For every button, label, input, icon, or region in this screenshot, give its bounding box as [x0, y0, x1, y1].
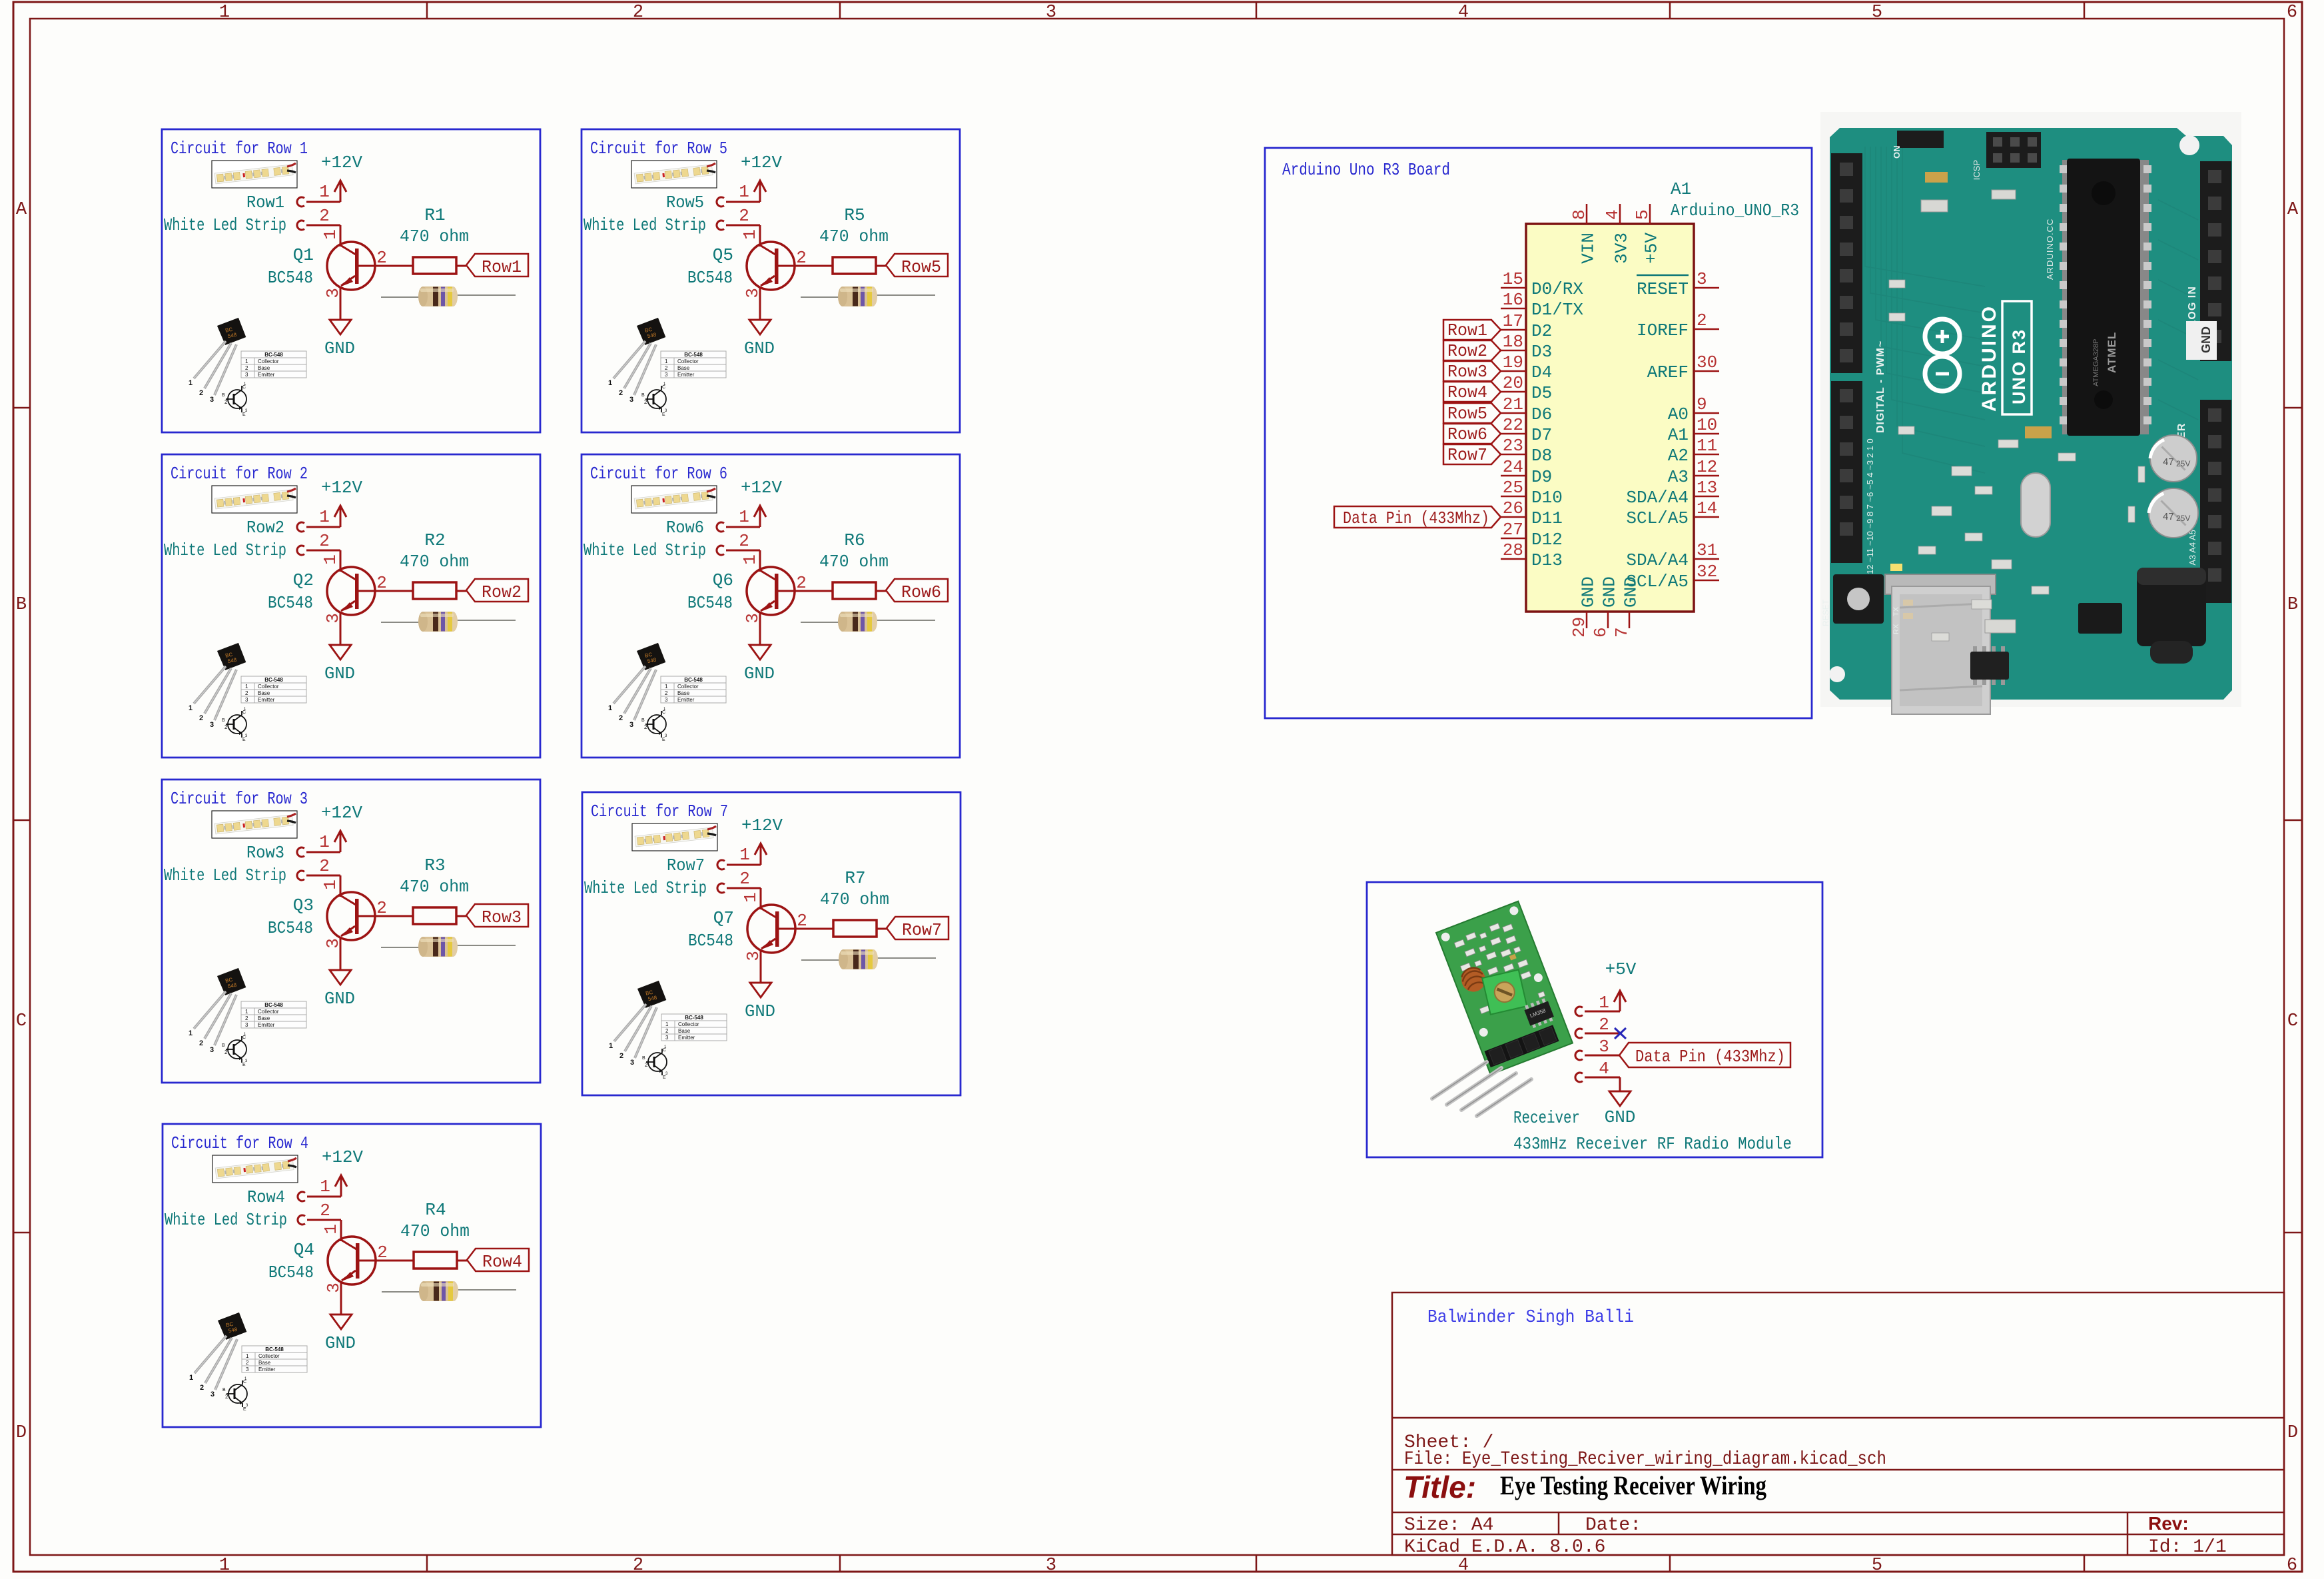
- svg-text:Collector: Collector: [258, 358, 279, 364]
- pin 5 (+5V): [1649, 204, 1651, 224]
- pin 4 (3V3): [1619, 204, 1621, 224]
- svg-text:Row5: Row5: [901, 257, 941, 277]
- svg-text:Q2: Q2: [293, 570, 314, 590]
- transistor Q5 BC548: [747, 242, 795, 290]
- svg-text:2: 2: [320, 1201, 330, 1221]
- svg-text:3: 3: [246, 1366, 249, 1372]
- pin 2 (IOREF): [1694, 328, 1719, 330]
- pin 15 (D0/RX): [1501, 287, 1526, 289]
- svg-text:Row7: Row7: [1447, 445, 1487, 465]
- svg-text:Base: Base: [258, 365, 270, 371]
- svg-text:2: 2: [245, 690, 248, 696]
- receiver pin 3: [1575, 1051, 1583, 1060]
- svg-text:BC-548: BC-548: [265, 1346, 284, 1352]
- svg-text:Collector: Collector: [678, 1021, 699, 1027]
- svg-text:2: 2: [199, 1039, 203, 1047]
- svg-text:9: 9: [1697, 394, 1707, 414]
- svg-text:24: 24: [1503, 457, 1523, 477]
- pin 23 (D8): [1501, 454, 1526, 456]
- photo: white LED strip: [632, 823, 717, 851]
- power symbol +12V: [755, 843, 767, 865]
- svg-text:BC-548: BC-548: [684, 352, 703, 358]
- ground symbol GND: [749, 645, 771, 660]
- svg-text:A: A: [2287, 200, 2299, 220]
- svg-text:+12V: +12V: [321, 803, 362, 823]
- svg-text:Base: Base: [677, 690, 690, 696]
- svg-text:Collector: Collector: [258, 684, 279, 690]
- svg-text:Collector: Collector: [677, 358, 699, 364]
- receiver pin 2 wire: [1585, 1033, 1620, 1035]
- wire pin1 to +12V: [726, 526, 760, 528]
- svg-text:GND: GND: [324, 664, 355, 684]
- wire resistor to net label: [876, 590, 886, 592]
- svg-text:4: 4: [1599, 1059, 1609, 1079]
- svg-text:Emitter: Emitter: [258, 1366, 276, 1372]
- svg-text:1: 1: [320, 554, 340, 565]
- svg-text:+5V: +5V: [1642, 233, 1662, 264]
- svg-text:BC-548: BC-548: [264, 1002, 283, 1008]
- svg-text:D11: D11: [1531, 508, 1563, 528]
- sheet: Circuit for Row 2: [162, 454, 540, 758]
- net label Row4 (D5): [1443, 382, 1501, 402]
- svg-text:Q7: Q7: [713, 908, 734, 928]
- svg-text:D9: D9: [1531, 467, 1552, 487]
- svg-text:ATMEGA328P: ATMEGA328P: [2092, 339, 2100, 386]
- svg-text:Row6: Row6: [901, 582, 941, 602]
- svg-text:23: 23: [1503, 436, 1523, 456]
- svg-text:R1: R1: [424, 205, 445, 225]
- svg-text:Emitter: Emitter: [258, 1022, 275, 1028]
- resistor R6: [833, 582, 876, 599]
- net label Row7: [887, 917, 949, 939]
- svg-text:Row6: Row6: [666, 518, 704, 538]
- receiver pin 4 wire: [1585, 1077, 1620, 1079]
- sheet border Row 6: [581, 454, 960, 758]
- svg-text:GND: GND: [325, 1333, 356, 1353]
- svg-text:1: 1: [739, 845, 750, 865]
- svg-text:3: 3: [245, 697, 248, 703]
- svg-text:Base: Base: [258, 690, 270, 696]
- pin 10 (A1): [1694, 433, 1719, 435]
- svg-text:2: 2: [224, 399, 228, 405]
- svg-text:Row2: Row2: [482, 582, 522, 602]
- svg-text:1: 1: [245, 684, 248, 690]
- svg-text:470 ohm: 470 ohm: [819, 552, 889, 572]
- resistor R7: [833, 920, 877, 937]
- svg-text:D10: D10: [1531, 488, 1563, 508]
- sheet: Circuit for Row 4: [163, 1124, 541, 1427]
- svg-text:White Led Strip: White Led Strip: [583, 540, 706, 560]
- svg-text:+12V: +12V: [741, 815, 783, 835]
- right header (power/analog): [2200, 161, 2231, 361]
- photo: 433MHz RF receiver module: [1436, 901, 1573, 1075]
- small ICs: [2078, 603, 2122, 634]
- svg-text:3: 3: [629, 721, 633, 729]
- svg-text:1: 1: [739, 507, 749, 527]
- svg-text:Data Pin (433Mhz): Data Pin (433Mhz): [1635, 1047, 1785, 1067]
- svg-text:B: B: [222, 718, 225, 723]
- svg-text:Row3: Row3: [246, 843, 284, 863]
- connector pin 2 (White Led Strip): [297, 221, 304, 230]
- svg-text:8: 8: [1569, 209, 1589, 220]
- svg-text:B: B: [16, 595, 27, 615]
- svg-text:1: 1: [219, 3, 230, 23]
- svg-text:2: 2: [665, 365, 668, 371]
- connector pin 1 (Row4): [298, 1192, 305, 1201]
- svg-text:29: 29: [1569, 617, 1589, 638]
- svg-text:R6: R6: [844, 530, 865, 550]
- svg-text:470 ohm: 470 ohm: [400, 552, 469, 572]
- UNO R3 label: [2002, 301, 2032, 414]
- frame column ticks: [426, 2, 428, 19]
- svg-text:+12V: +12V: [741, 153, 782, 173]
- svg-text:Row4: Row4: [1447, 382, 1487, 402]
- svg-text:1: 1: [608, 704, 612, 712]
- svg-text:2: 2: [225, 1394, 228, 1400]
- svg-text:SDA/A4: SDA/A4: [1626, 550, 1689, 570]
- svg-text:3: 3: [210, 1046, 214, 1054]
- sheet border Row 7: [582, 792, 961, 1095]
- photo: BC548 TO-92 transistor: [609, 980, 727, 1080]
- svg-text:3: 3: [245, 1022, 248, 1028]
- power symbol +12V: [334, 506, 346, 527]
- svg-text:RESET: RESET: [1821, 599, 1830, 626]
- svg-text:15: 15: [1503, 269, 1523, 289]
- svg-text:Emitter: Emitter: [677, 372, 695, 378]
- crystal: [2021, 473, 2050, 537]
- svg-text:Collector: Collector: [258, 1009, 279, 1015]
- svg-text:2: 2: [619, 1052, 623, 1060]
- svg-text:2: 2: [199, 714, 203, 722]
- svg-text:D3: D3: [1531, 342, 1552, 362]
- misc smds: [1952, 466, 1972, 476]
- IC LM358: [1523, 997, 1555, 1029]
- svg-text:30: 30: [1697, 352, 1717, 372]
- svg-text:2: 2: [644, 399, 647, 405]
- resistor R3: [413, 907, 456, 924]
- wire pin1 to +12V: [306, 526, 340, 528]
- svg-text:21: 21: [1503, 394, 1523, 414]
- svg-text:E: E: [243, 1407, 246, 1412]
- connector pin 1 (Row3): [297, 847, 304, 857]
- svg-text:A1: A1: [1671, 179, 1691, 199]
- svg-text:Circuit for Row 6: Circuit for Row 6: [590, 464, 727, 484]
- svg-text:A1: A1: [1668, 425, 1689, 445]
- svg-text:1: 1: [665, 684, 668, 690]
- svg-text:22: 22: [1503, 415, 1523, 435]
- sheet: Circuit for Row 5: [581, 129, 960, 432]
- svg-text:Row3: Row3: [1447, 362, 1487, 382]
- RESET overline: [1637, 274, 1689, 276]
- photo: white LED strip: [212, 811, 297, 838]
- mounting hole: [2179, 135, 2199, 155]
- svg-text:27: 27: [1503, 520, 1523, 540]
- svg-text:D7: D7: [1531, 425, 1552, 445]
- trimmer: [1482, 970, 1527, 1015]
- resistor R5: [833, 257, 876, 274]
- ground symbol GND: [329, 970, 352, 985]
- svg-text:White Led Strip: White Led Strip: [583, 215, 706, 235]
- svg-text:White Led Strip: White Led Strip: [164, 540, 286, 560]
- svg-text:A3: A3: [1668, 467, 1689, 487]
- receiver pin 2: [1575, 1029, 1583, 1038]
- wire base to resistor: [779, 590, 833, 592]
- svg-text:ON: ON: [1892, 146, 1902, 159]
- svg-text:Base: Base: [258, 1360, 271, 1366]
- net label Row5 (D6): [1443, 403, 1501, 423]
- svg-text:E: E: [242, 1063, 246, 1067]
- svg-text:B: B: [222, 393, 225, 398]
- svg-text:Base: Base: [678, 1028, 691, 1034]
- sheet: Circuit for Row 6: [581, 454, 960, 758]
- svg-text:Base: Base: [677, 365, 690, 371]
- svg-text:25V: 25V: [2176, 514, 2190, 523]
- sheet: 433mHz Receiver RF Radio Module: [1367, 882, 1822, 1157]
- svg-text:D: D: [2287, 1423, 2298, 1443]
- pin 12 (A3): [1694, 475, 1719, 477]
- sheet: Circuit for Row 1: [162, 129, 540, 432]
- pin 7 (GND): [1629, 612, 1631, 628]
- sheet border Row 4: [163, 1124, 541, 1427]
- svg-text:1: 1: [319, 182, 330, 202]
- svg-text:BC-548: BC-548: [264, 352, 283, 358]
- svg-text:3: 3: [1046, 3, 1056, 23]
- wire emitter to ground: [340, 1281, 342, 1315]
- svg-text:B: B: [2287, 595, 2298, 615]
- top-left pin header: [1897, 131, 1944, 148]
- svg-text:Eye Testing Receiver Wiring: Eye Testing Receiver Wiring: [1500, 1470, 1766, 1500]
- svg-text:DIGITAL - PWM~: DIGITAL - PWM~: [1875, 340, 1886, 433]
- svg-text:BC548: BC548: [268, 268, 313, 288]
- svg-text:GND: GND: [324, 338, 355, 358]
- svg-text:C: C: [2287, 1011, 2298, 1031]
- connector pin 2 (White Led Strip): [297, 546, 304, 555]
- photo: 470 ohm resistor: [801, 949, 936, 969]
- wire resistor to net label: [456, 915, 466, 917]
- svg-text:+12V: +12V: [322, 1147, 363, 1167]
- wire resistor to net label: [877, 928, 887, 930]
- svg-text:3: 3: [245, 372, 248, 378]
- svg-text:1: 1: [245, 358, 248, 364]
- svg-text:D4: D4: [1531, 362, 1552, 382]
- pin 16 (D1/TX): [1501, 308, 1526, 310]
- sheet border Row 3: [162, 780, 540, 1083]
- GND sticker: [2186, 321, 2217, 360]
- wire emitter to ground: [759, 612, 761, 645]
- no-connect X: [1615, 1028, 1626, 1039]
- electrolytic caps: [2150, 435, 2197, 482]
- wire emitter to ground: [760, 949, 762, 983]
- svg-text:Circuit for Row 1: Circuit for Row 1: [171, 139, 308, 159]
- resistor R1: [413, 257, 456, 274]
- svg-text:BC-548: BC-548: [264, 677, 283, 683]
- net label Row1: [466, 254, 528, 276]
- ground symbol GND: [329, 320, 352, 334]
- svg-text:18: 18: [1503, 332, 1523, 352]
- photo: BC548 TO-92 transistor: [608, 642, 726, 742]
- svg-text:1: 1: [245, 1009, 248, 1015]
- svg-text:R4: R4: [425, 1200, 446, 1220]
- transistor Q3 BC548: [327, 892, 375, 940]
- svg-text:Emitter: Emitter: [258, 697, 275, 703]
- photo: 470 ohm resistor: [801, 286, 935, 306]
- header pins: [1485, 1025, 1559, 1067]
- svg-text:1: 1: [321, 1224, 341, 1235]
- svg-text:Row3: Row3: [482, 907, 522, 927]
- transistor Q6 BC548: [747, 567, 795, 615]
- svg-text:3: 3: [665, 697, 668, 703]
- reset button: [1833, 574, 1884, 624]
- svg-text:GND: GND: [2199, 326, 2213, 353]
- power symbol +12V: [754, 181, 766, 202]
- svg-text:10: 10: [1697, 415, 1717, 435]
- svg-text:6: 6: [1591, 627, 1611, 638]
- svg-text:Row1: Row1: [1447, 320, 1487, 340]
- svg-text:A2: A2: [1668, 446, 1689, 466]
- svg-text:3V3: 3V3: [1612, 233, 1632, 264]
- svg-text:1: 1: [665, 1021, 669, 1027]
- net label Row3: [466, 904, 528, 927]
- LEDs and small parts: [1890, 564, 1902, 571]
- svg-text:2: 2: [200, 1384, 204, 1392]
- photo: 470 ohm resistor: [382, 1281, 516, 1301]
- ground symbol GND: [749, 983, 772, 997]
- svg-text:E: E: [663, 1075, 666, 1080]
- svg-text:1: 1: [319, 832, 330, 852]
- ground symbol: [1609, 1091, 1631, 1106]
- wire base to resistor: [779, 928, 834, 930]
- svg-text:GND: GND: [324, 989, 355, 1009]
- wire pin2 to collector: [306, 875, 340, 877]
- power symbol +5V: [1614, 991, 1626, 1011]
- svg-text:C: C: [16, 1011, 27, 1031]
- connector pin 2 (White Led Strip): [717, 883, 725, 893]
- svg-text:White Led Strip: White Led Strip: [164, 865, 286, 885]
- svg-text:D6: D6: [1531, 404, 1552, 424]
- photo: BC548 TO-92 transistor: [189, 967, 306, 1067]
- svg-text:Collector: Collector: [258, 1353, 280, 1359]
- svg-text:1: 1: [320, 1177, 330, 1197]
- svg-text:25: 25: [1503, 478, 1523, 498]
- photo: BC548 TO-92 transistor: [189, 1312, 307, 1412]
- wire base to resistor: [359, 265, 414, 267]
- photo: white LED strip: [212, 161, 297, 188]
- pin 26 (D11): [1501, 516, 1526, 518]
- svg-text:11: 11: [1697, 436, 1717, 456]
- pin 29 (GND): [1586, 612, 1588, 628]
- svg-text:2: 2: [665, 690, 668, 696]
- svg-text:Title:: Title:: [1403, 1470, 1476, 1504]
- pin 24 (D9): [1501, 475, 1526, 477]
- net label Row1 (D2): [1443, 320, 1501, 340]
- svg-text:B: B: [222, 1388, 226, 1392]
- svg-text:GND: GND: [1579, 576, 1599, 608]
- svg-text:3: 3: [1697, 269, 1707, 289]
- svg-text:Data Pin (433Mhz): Data Pin (433Mhz): [1343, 508, 1489, 528]
- svg-text:1: 1: [189, 379, 193, 387]
- svg-text:2: 2: [319, 206, 330, 226]
- svg-text:2: 2: [1697, 310, 1707, 330]
- pin 11 (A2): [1694, 454, 1719, 456]
- sheet border receiver: [1367, 882, 1822, 1157]
- svg-text:E: E: [662, 412, 665, 417]
- pin 25 (D10): [1501, 496, 1526, 498]
- pin 19 (D4): [1501, 370, 1526, 372]
- svg-text:BC-548: BC-548: [685, 1015, 703, 1021]
- svg-text:1: 1: [246, 1353, 249, 1359]
- svg-text:1: 1: [608, 379, 612, 387]
- sheet border Arduino: [1265, 148, 1812, 718]
- left header (digital): [1831, 153, 1862, 373]
- pin 21 (D6): [1501, 412, 1526, 414]
- svg-text:2: 2: [224, 1049, 228, 1055]
- pin 27 (D12): [1501, 538, 1526, 540]
- svg-text:D5: D5: [1531, 383, 1552, 403]
- photo: white LED strip: [631, 161, 717, 188]
- svg-text:Row6: Row6: [1447, 424, 1487, 444]
- svg-text:3: 3: [1046, 1556, 1056, 1576]
- wire base to resistor: [359, 915, 414, 917]
- svg-text:GND: GND: [744, 338, 775, 358]
- svg-text:Q1: Q1: [293, 245, 314, 265]
- svg-text:GND: GND: [1621, 576, 1641, 608]
- pin 28 (D13): [1501, 558, 1526, 560]
- connector pin 1 (Row7): [717, 860, 725, 869]
- svg-text:GND: GND: [745, 1001, 775, 1021]
- svg-text:Row5: Row5: [666, 193, 704, 213]
- svg-text:5: 5: [1633, 209, 1653, 220]
- svg-text:White Led Strip: White Led Strip: [164, 215, 286, 235]
- svg-text:Receiver: Receiver: [1513, 1108, 1580, 1128]
- pin 22 (D7): [1501, 433, 1526, 435]
- USB connector: [1885, 574, 1996, 594]
- svg-text:4: 4: [1458, 1556, 1469, 1576]
- svg-text:4: 4: [1603, 209, 1623, 220]
- svg-text:D2: D2: [1531, 321, 1552, 341]
- svg-text:2: 2: [633, 3, 643, 23]
- svg-text:+12V: +12V: [741, 478, 782, 498]
- svg-text:B: B: [222, 1043, 225, 1048]
- svg-text:Row7: Row7: [902, 920, 942, 940]
- photo: BC548 TO-92 transistor: [189, 317, 306, 417]
- svg-text:31: 31: [1697, 540, 1717, 560]
- svg-text:17: 17: [1503, 311, 1523, 331]
- svg-text:Emitter: Emitter: [677, 697, 695, 703]
- connector pin 1 (Row2): [297, 522, 304, 532]
- svg-text:4: 4: [1458, 3, 1469, 23]
- net label Row2 (D3): [1443, 340, 1501, 360]
- sheet border Row 1: [162, 129, 540, 432]
- receiver pin 3 wire: [1585, 1055, 1619, 1057]
- net label Row5: [886, 254, 948, 276]
- svg-text:GND: GND: [744, 664, 775, 684]
- svg-text:32: 32: [1697, 562, 1717, 582]
- svg-text:Row2: Row2: [1447, 341, 1487, 361]
- wire pin2 to collector: [726, 550, 760, 552]
- svg-text:47: 47: [2163, 511, 2174, 522]
- wire pin2 to collector: [727, 887, 761, 889]
- pin 17 (D2): [1501, 329, 1526, 331]
- svg-text:Row5: Row5: [1447, 404, 1487, 424]
- svg-text:Q6: Q6: [713, 570, 733, 590]
- svg-text:470 ohm: 470 ohm: [819, 227, 889, 247]
- resistor R4: [414, 1252, 457, 1269]
- board: [1830, 128, 2232, 700]
- svg-text:3: 3: [1599, 1037, 1609, 1057]
- pin 13 (SDA/A4): [1694, 496, 1719, 498]
- svg-text:E: E: [662, 738, 665, 742]
- svg-text:Collector: Collector: [677, 684, 699, 690]
